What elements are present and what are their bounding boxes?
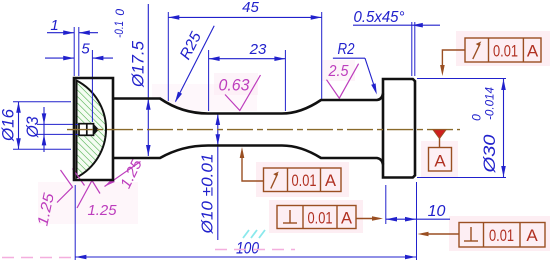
svg-text:1: 1 bbox=[50, 17, 58, 34]
svg-text:0: 0 bbox=[113, 9, 127, 16]
part outline: head bbox=[74, 78, 113, 180]
dimension D3 extension lines bbox=[37, 124, 79, 134]
svg-text:Ø3: Ø3 bbox=[24, 116, 42, 139]
svg-text:0.01: 0.01 bbox=[308, 210, 333, 228]
roughness 1.25 middle bbox=[77, 181, 100, 209]
svg-text:0.01: 0.01 bbox=[489, 226, 514, 245]
dimension D30 with tolerance bbox=[503, 79, 505, 178]
svg-text:A: A bbox=[341, 210, 352, 228]
stray magenta guide dashes bbox=[2, 257, 72, 259]
svg-text:A: A bbox=[526, 226, 538, 245]
svg-text:A: A bbox=[434, 152, 446, 171]
svg-text:45: 45 bbox=[242, 0, 259, 16]
dimension D16 bbox=[18, 102, 20, 150]
dimension D10 bbox=[217, 114, 219, 240]
dimension 45 bbox=[168, 16, 321, 18]
svg-text:R25: R25 bbox=[177, 29, 205, 62]
datum A symbol bbox=[433, 130, 446, 139]
part body fill bbox=[74, 78, 415, 180]
svg-text:0: 0 bbox=[470, 114, 484, 121]
feature control frame: perpendicularity (left) bbox=[277, 206, 376, 229]
centerline (axis) bbox=[67, 129, 460, 131]
svg-text:Ø17.5: Ø17.5 bbox=[129, 40, 148, 88]
dimension D16 extension lines bbox=[13, 102, 71, 150]
svg-text:Ø30: Ø30 bbox=[480, 134, 499, 174]
svg-text:0.01: 0.01 bbox=[292, 172, 317, 190]
dimension 23 bbox=[209, 58, 286, 60]
svg-text:100: 100 bbox=[236, 240, 260, 258]
roughness 1.25 right with leader bbox=[105, 162, 141, 187]
dimension 100 extension line bbox=[74, 185, 76, 260]
svg-text:0.01: 0.01 bbox=[493, 42, 518, 61]
roughness 0.63 bbox=[225, 75, 261, 111]
dimension D3 bbox=[43, 107, 45, 152]
chamfer dimension 0.5x45 extension lines bbox=[412, 22, 415, 76]
svg-text:2.5: 2.5 bbox=[328, 63, 349, 80]
svg-text:R2: R2 bbox=[338, 41, 355, 58]
hatched spherical recess (section) bbox=[77, 81, 107, 178]
svg-text:1.25: 1.25 bbox=[88, 202, 118, 219]
part outline: middle profile bbox=[113, 94, 383, 114]
radius leader R25 bbox=[176, 26, 215, 102]
dimension 1 bbox=[47, 32, 98, 34]
svg-text:A: A bbox=[325, 172, 336, 190]
part outline: right flange with chamfers bbox=[383, 79, 415, 178]
stray cyan marks bbox=[243, 230, 265, 238]
dimension D30 extension lines bbox=[417, 79, 506, 178]
dimension 10 extension lines bbox=[386, 182, 417, 260]
svg-text:5: 5 bbox=[81, 41, 90, 58]
feature control frame: circular runout (top right) bbox=[442, 38, 541, 70]
svg-text:A: A bbox=[527, 42, 539, 61]
feature control frame: circular runout (middle) bbox=[242, 152, 341, 192]
svg-text:1.25: 1.25 bbox=[117, 156, 146, 191]
dimension 1 extension lines bbox=[74, 27, 79, 76]
dimension 10 bbox=[386, 218, 450, 220]
svg-text:-0.1: -0.1 bbox=[112, 21, 126, 38]
svg-text:23: 23 bbox=[249, 41, 267, 58]
dimension 100 bbox=[75, 256, 416, 258]
center drill hole bbox=[79, 124, 94, 136]
svg-text:-0.014: -0.014 bbox=[483, 87, 497, 120]
dimension 5 bbox=[45, 57, 113, 59]
feature control frame: perpendicularity (right) bbox=[424, 223, 545, 248]
roughness 2.5 bbox=[327, 64, 359, 98]
svg-text:0.63: 0.63 bbox=[219, 76, 251, 95]
background tint patches (jpeg-like halos) bbox=[38, 31, 550, 251]
svg-text:0.5x45°: 0.5x45° bbox=[354, 9, 405, 26]
dimension 5 extension line bbox=[91, 50, 93, 122]
svg-text:Ø10 ±0.01: Ø10 ±0.01 bbox=[200, 154, 217, 235]
svg-text:Ø16: Ø16 bbox=[0, 108, 18, 142]
dimension 45 extension lines bbox=[168, 12, 321, 101]
chamfer dimension 0.5x45 bbox=[353, 24, 440, 26]
roughness 1.25 left bbox=[57, 169, 85, 203]
svg-text:10: 10 bbox=[428, 203, 446, 220]
dimension D17.5 with tolerance bbox=[147, 4, 149, 156]
dimension 23 extension lines bbox=[209, 50, 286, 111]
